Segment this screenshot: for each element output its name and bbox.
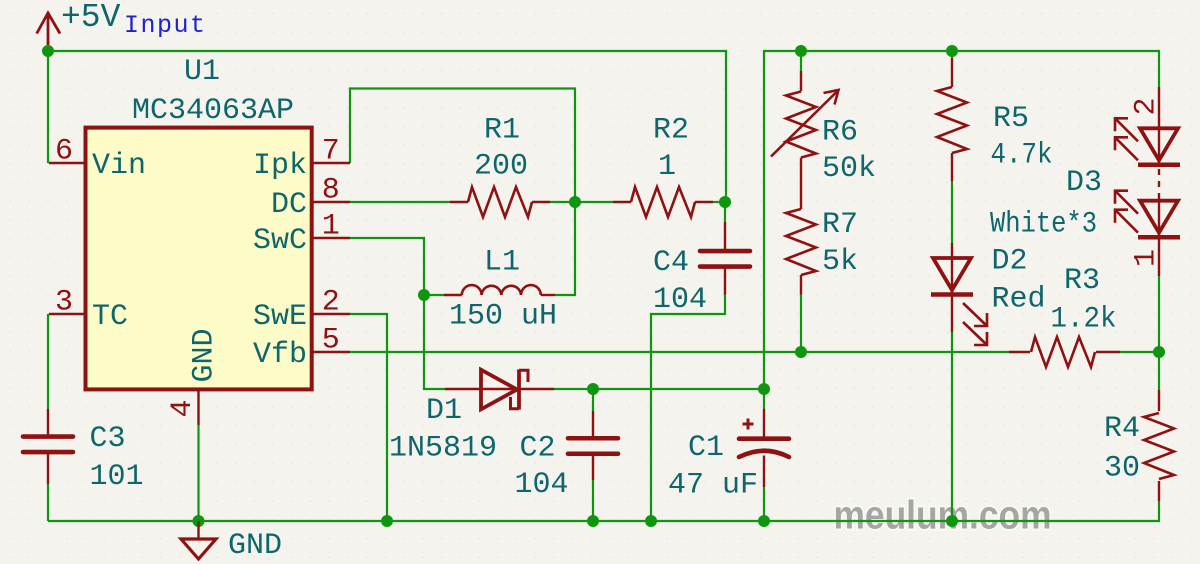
wire D1 output row	[554, 388, 764, 390]
svg-text:C4: C4	[653, 246, 689, 280]
wire R2 to +5V node	[713, 201, 726, 203]
capacitor C3	[47, 409, 49, 437]
svg-text:30: 30	[1104, 452, 1140, 486]
svg-text:SwC: SwC	[253, 224, 307, 258]
svg-text:C2: C2	[520, 432, 556, 466]
wire D2 to ground	[951, 332, 953, 521]
svg-text:R6: R6	[822, 116, 858, 150]
svg-text:DC: DC	[271, 188, 307, 222]
wire C3 top	[47, 314, 49, 409]
svg-text:2: 2	[322, 285, 340, 319]
LED D3 (second of string)	[1158, 201, 1160, 238]
wire R3 to LED string	[1120, 351, 1159, 353]
ground symbol	[197, 521, 199, 539]
LED D3 (first of string)	[1158, 87, 1160, 128]
resistor R5	[951, 58, 953, 87]
wire +5V to pin6	[47, 51, 49, 163]
svg-text:U1: U1	[184, 55, 220, 89]
wire ground rail	[48, 501, 1159, 521]
svg-text:R5: R5	[993, 102, 1029, 136]
wire L1 to D1	[424, 295, 445, 389]
svg-text:R3: R3	[1064, 264, 1100, 298]
svg-text:47 uF: 47 uF	[668, 468, 758, 502]
svg-text:150 uH: 150 uH	[449, 300, 557, 334]
wire C1 top	[763, 389, 765, 409]
svg-text:D1: D1	[426, 394, 462, 428]
svg-text:1.2k: 1.2k	[1051, 303, 1117, 337]
svg-text:1: 1	[1130, 249, 1164, 267]
junction output/C1	[758, 383, 770, 395]
junction ground/GND	[193, 515, 205, 527]
pin 3 (TC)	[49, 313, 86, 315]
resistor R3	[1009, 351, 1030, 353]
wire SwE to ground	[350, 314, 387, 521]
svg-text:3: 3	[55, 285, 73, 319]
potentiometer R6	[800, 71, 802, 91]
inductor L1	[444, 294, 462, 296]
svg-text:104: 104	[515, 468, 569, 502]
junction ground/C2	[587, 515, 599, 527]
svg-text:White*3: White*3	[990, 208, 1097, 242]
junction SwC/L1/D1	[418, 289, 430, 301]
svg-text:C3: C3	[90, 422, 126, 456]
junction output/R5	[946, 45, 958, 57]
svg-text:6: 6	[55, 134, 73, 168]
svg-text:1N5819: 1N5819	[389, 432, 497, 466]
power symbol +5V	[47, 13, 50, 52]
capacitor C4	[724, 222, 726, 250]
wire pin4 to ground	[197, 425, 199, 521]
wire R4 top	[1158, 352, 1160, 390]
wire C1 bottom	[763, 487, 765, 521]
LED D2	[951, 243, 953, 258]
wire C4 top	[724, 202, 726, 222]
svg-text:1: 1	[658, 150, 676, 184]
wire DC to R1	[350, 201, 450, 203]
svg-text:D2: D2	[992, 245, 1028, 279]
svg-text:Ipk: Ipk	[253, 149, 307, 183]
pin 6 (Vin)	[49, 162, 86, 164]
pin 8 (DC)	[312, 201, 350, 203]
svg-text:5: 5	[322, 323, 340, 357]
wire R7 bottom	[800, 295, 802, 353]
svg-text:2: 2	[1130, 97, 1164, 115]
junction ground/C4	[645, 515, 657, 527]
svg-text:TC: TC	[92, 300, 128, 334]
svg-text:R2: R2	[653, 114, 689, 148]
junction ground/C1	[758, 515, 770, 527]
resistor R2	[613, 201, 631, 203]
svg-text:MC34063AP: MC34063AP	[132, 94, 294, 128]
resistor R1	[450, 201, 468, 203]
svg-text:D3: D3	[1066, 166, 1102, 200]
svg-text:8: 8	[322, 173, 340, 207]
diode D1 1N5819	[445, 388, 518, 390]
svg-text:Vin: Vin	[92, 149, 146, 183]
capacitor C2	[592, 411, 594, 438]
svg-text:4: 4	[166, 399, 200, 417]
wire D3 bottom	[1158, 276, 1160, 352]
svg-text:4.7k: 4.7k	[991, 139, 1053, 173]
wire SwC to L1	[350, 238, 444, 295]
resistor R7	[786, 209, 816, 275]
svg-text:R4: R4	[1104, 412, 1140, 446]
svg-text:101: 101	[90, 460, 144, 494]
junction Vfb/R7	[795, 346, 807, 358]
pin 7 (Ipk)	[312, 162, 350, 164]
svg-text:SwE: SwE	[253, 300, 307, 334]
pin 5 (Vfb)	[312, 351, 350, 353]
wire C4 bottom to ground	[651, 295, 725, 522]
IC U1 MC34063AP body	[86, 128, 312, 390]
junction D1/C2	[587, 383, 599, 395]
junction output/R6	[795, 45, 807, 57]
wire R5 top	[951, 51, 953, 58]
svg-text:GND: GND	[228, 529, 282, 563]
wire R5 to D2	[951, 181, 953, 243]
svg-text:Red: Red	[992, 283, 1046, 317]
series dashed link D3	[1158, 169, 1160, 201]
pin 4 (GND)	[197, 389, 199, 425]
wire R1-R2 node	[550, 201, 613, 203]
wire output rail	[764, 51, 1159, 389]
wire Ipk loop	[350, 89, 575, 296]
svg-text:C1: C1	[688, 431, 724, 465]
wire C3 bottom	[47, 484, 49, 521]
pin 2 (SwE)	[312, 313, 350, 315]
svg-text:104: 104	[653, 283, 707, 317]
svg-text:+5V: +5V	[61, 0, 121, 36]
svg-text:Input: Input	[124, 11, 207, 40]
svg-text:200: 200	[474, 150, 528, 184]
svg-text:L1: L1	[484, 246, 520, 280]
pin 1 (SwC)	[312, 237, 350, 239]
capacitor C1 (polarized)	[763, 409, 765, 438]
svg-text:R1: R1	[484, 114, 520, 148]
wire Vfb row	[350, 351, 1009, 353]
svg-text:50k: 50k	[822, 152, 876, 186]
wire +5V rail	[48, 51, 726, 202]
junction R1/R2/Ipk	[569, 196, 581, 208]
junction R3/R4/D3	[1153, 346, 1165, 358]
svg-text:1: 1	[322, 209, 340, 243]
svg-text:meulum.com: meulum.com	[834, 494, 1052, 538]
junction +5V	[42, 45, 54, 57]
junction R2/C4	[719, 196, 731, 208]
resistor R4	[1158, 390, 1160, 411]
junction ground/SwE	[381, 515, 393, 527]
svg-text:5k: 5k	[822, 245, 858, 279]
wire R6 top	[800, 51, 802, 71]
junction ground/D2	[946, 515, 958, 527]
wire C2 bottom	[592, 480, 594, 521]
svg-text:7: 7	[322, 134, 340, 168]
svg-text:GND: GND	[188, 328, 222, 382]
wire C2 top	[592, 389, 594, 411]
svg-text:Vfb: Vfb	[253, 338, 307, 372]
svg-text:R7: R7	[822, 208, 858, 242]
